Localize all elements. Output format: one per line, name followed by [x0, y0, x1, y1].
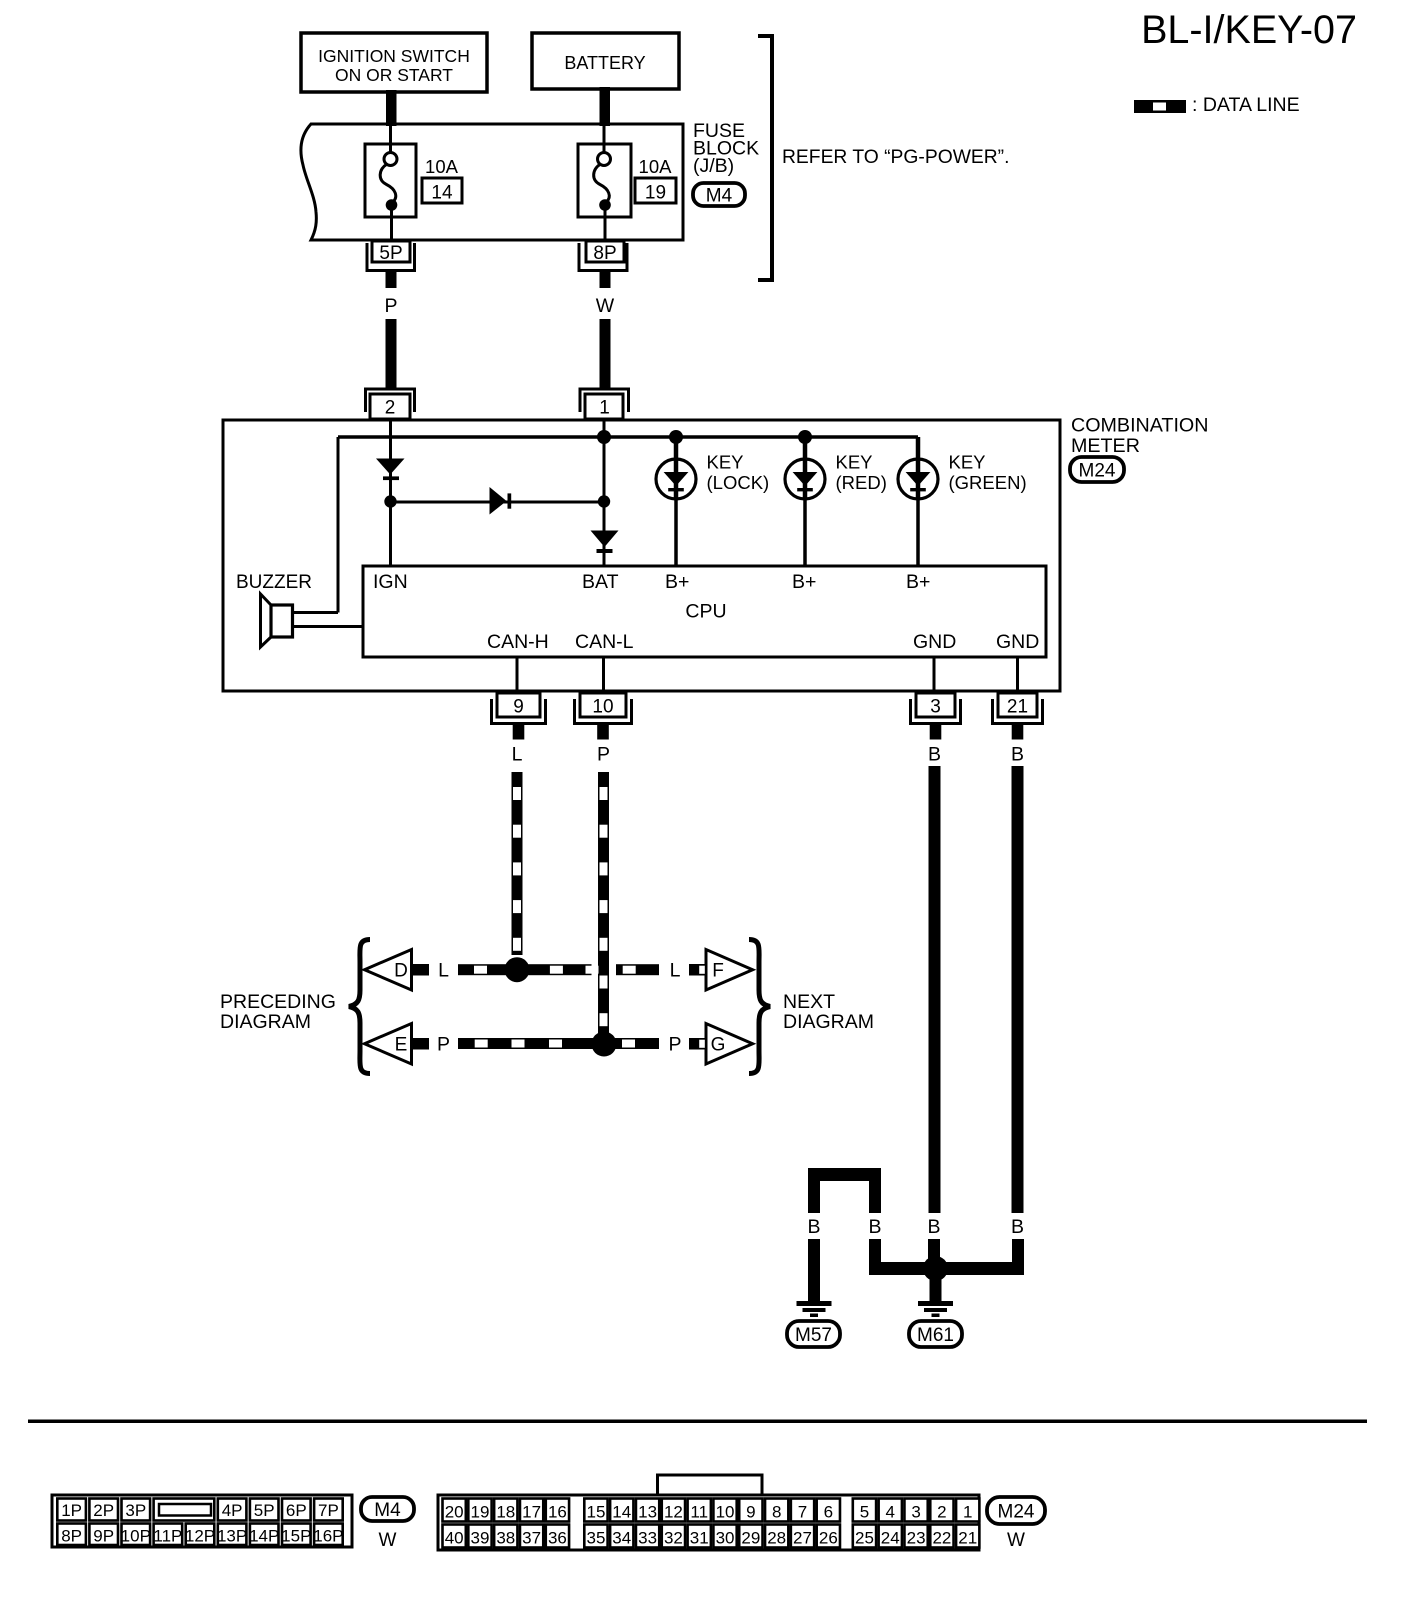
M4 pin 12P: [186, 1524, 215, 1546]
svg-text:15: 15: [586, 1503, 605, 1522]
svg-text:14: 14: [431, 183, 453, 204]
svg-text:B+: B+: [792, 571, 816, 593]
left brace: [349, 940, 370, 1074]
M24 pin 14: [610, 1499, 633, 1522]
wire CAN-H to connector 9: [516, 657, 519, 691]
M4 pin 2P: [89, 1499, 118, 1521]
svg-text:W: W: [1007, 1530, 1025, 1551]
M24 pin 36: [546, 1525, 569, 1548]
connector 2: [366, 389, 415, 412]
junction BAT top bus: [597, 430, 611, 444]
svg-text:6: 6: [824, 1503, 833, 1522]
svg-text:(RED): (RED): [836, 472, 887, 493]
svg-text:10A: 10A: [425, 156, 459, 177]
CPU box: [363, 566, 1046, 657]
M24 pin 5: [853, 1499, 876, 1522]
M24 pin 16: [546, 1499, 569, 1522]
svg-text:34: 34: [612, 1529, 631, 1548]
arrow G next: [706, 1024, 753, 1065]
svg-text:16P: 16P: [313, 1526, 343, 1545]
svg-text:28: 28: [767, 1529, 786, 1548]
junction key lock feed: [669, 430, 683, 444]
svg-text:REFER TO “PG-POWER”.: REFER TO “PG-POWER”.: [782, 147, 1009, 168]
M24 pin 18: [494, 1499, 517, 1522]
svg-text:9P: 9P: [93, 1526, 114, 1545]
svg-text:P: P: [597, 744, 610, 766]
M24 pin 26: [817, 1525, 840, 1548]
svg-text:P: P: [437, 1034, 450, 1056]
svg-text:4: 4: [886, 1503, 895, 1522]
svg-text:35: 35: [586, 1529, 605, 1548]
M24 pin 12: [662, 1499, 685, 1522]
svg-text:M4: M4: [374, 1500, 401, 1521]
M4 pin 16P: [314, 1524, 343, 1546]
data line P horizontal: [458, 1038, 659, 1049]
svg-text:3: 3: [911, 1503, 920, 1522]
connector 3: [911, 699, 961, 724]
svg-text:M61: M61: [917, 1325, 954, 1346]
M4 pin 6P: [282, 1499, 311, 1521]
M24 pin 8: [765, 1499, 788, 1522]
junction BAT link: [598, 495, 610, 507]
svg-text:12: 12: [664, 1503, 683, 1522]
svg-text:30: 30: [716, 1529, 735, 1548]
data line legend symbol: [1134, 100, 1186, 113]
ground loop upside-down U: [808, 1168, 881, 1181]
svg-text:5: 5: [860, 1503, 869, 1522]
arrow D preceding: [365, 950, 412, 991]
diode D1 on IGN line: [376, 459, 405, 475]
svg-text:16: 16: [548, 1503, 567, 1522]
svg-text:23: 23: [907, 1529, 926, 1548]
wire GND to connector 3: [933, 657, 936, 691]
svg-text:IGN: IGN: [373, 571, 408, 593]
connector 21: [993, 699, 1043, 724]
svg-text:B: B: [807, 1216, 820, 1238]
svg-text:B+: B+: [906, 571, 930, 593]
svg-text:P: P: [384, 295, 397, 317]
svg-text:B: B: [1011, 744, 1024, 766]
svg-text:32: 32: [664, 1529, 683, 1548]
svg-text:B: B: [927, 1216, 940, 1238]
svg-text:8P: 8P: [593, 243, 616, 264]
svg-text:38: 38: [496, 1529, 515, 1548]
svg-text:19: 19: [645, 183, 666, 204]
svg-text:9: 9: [746, 1503, 755, 1522]
svg-text:40: 40: [445, 1529, 464, 1548]
svg-text:7P: 7P: [318, 1501, 339, 1520]
svg-text:KEY: KEY: [949, 452, 986, 473]
wire buzzer to top bus: [292, 611, 338, 614]
M4 pin 10P: [122, 1524, 151, 1546]
M4 keyway slot cell: [154, 1499, 215, 1521]
svg-text:METER: METER: [1071, 435, 1140, 457]
svg-text:13P: 13P: [217, 1526, 247, 1545]
svg-text:8P: 8P: [61, 1526, 82, 1545]
svg-text:5P: 5P: [254, 1501, 275, 1520]
svg-text:12P: 12P: [185, 1526, 215, 1545]
M4 pin 15P: [282, 1524, 311, 1546]
svg-text:CPU: CPU: [685, 601, 726, 623]
svg-text:L: L: [438, 960, 449, 982]
connector oval M4 bottom: [361, 1497, 414, 1521]
svg-text:GND: GND: [913, 631, 956, 653]
data line L horizontal: [458, 964, 592, 975]
wire IGN-BAT link: [391, 501, 604, 504]
svg-text:M57: M57: [795, 1325, 832, 1346]
svg-text:KEY: KEY: [707, 452, 744, 473]
wire B from connector 3 lower: [928, 1239, 940, 1263]
svg-text:15P: 15P: [281, 1526, 311, 1545]
svg-text:14P: 14P: [249, 1526, 279, 1545]
wire stub below 8P: [600, 272, 611, 288]
M4 pin 14P: [250, 1524, 279, 1546]
M4 pin 5P: [250, 1499, 279, 1521]
svg-text:(J/B): (J/B): [693, 155, 734, 177]
M24 pin 21: [956, 1525, 979, 1548]
arrow F next: [706, 950, 753, 991]
connector 5P: [367, 243, 415, 271]
ground oval M57: [787, 1321, 840, 1347]
connector 8P: [579, 243, 627, 271]
M24 pin 19: [468, 1499, 491, 1522]
M24 pin 17: [520, 1499, 543, 1522]
M24 pin 9: [739, 1499, 762, 1522]
M24 pin 22: [930, 1525, 953, 1548]
svg-text:IGNITION SWITCH: IGNITION SWITCH: [318, 46, 470, 66]
svg-text:D: D: [394, 961, 408, 982]
svg-text:W: W: [379, 1530, 397, 1551]
junction IGN link: [384, 495, 396, 507]
svg-text:3P: 3P: [125, 1501, 146, 1520]
svg-text:2: 2: [385, 398, 396, 419]
svg-text:F: F: [712, 961, 724, 982]
svg-text:M24: M24: [1079, 460, 1116, 481]
svg-text:7: 7: [798, 1503, 807, 1522]
svg-text:20: 20: [445, 1503, 464, 1522]
svg-text:CAN-L: CAN-L: [575, 631, 634, 653]
ground oval M61: [909, 1321, 962, 1347]
svg-text:24: 24: [881, 1529, 900, 1548]
wire junction to ground M61: [930, 1275, 942, 1301]
M4 pin 11P: [154, 1524, 183, 1546]
svg-text:2: 2: [937, 1503, 946, 1522]
svg-text:G: G: [711, 1035, 726, 1056]
combination meter box: [223, 420, 1060, 691]
svg-text:GND: GND: [996, 631, 1039, 653]
svg-text:COMBINATION: COMBINATION: [1071, 414, 1208, 436]
svg-text:19: 19: [471, 1503, 490, 1522]
data line L vertical: [512, 772, 523, 955]
svg-text:36: 36: [548, 1529, 567, 1548]
LED KEY LOCK: [674, 437, 679, 458]
svg-text:31: 31: [690, 1529, 709, 1548]
M24 pin 20: [443, 1499, 466, 1522]
M24 pin 38: [494, 1525, 517, 1548]
junction key red feed: [798, 430, 812, 444]
connector 9: [492, 699, 546, 724]
svg-text:B: B: [868, 1216, 881, 1238]
svg-text:B+: B+: [665, 571, 689, 593]
wire stub below 21: [1012, 725, 1024, 740]
svg-text:21: 21: [1007, 697, 1028, 718]
svg-text:26: 26: [819, 1529, 838, 1548]
M24 pin 31: [688, 1525, 711, 1548]
connector 10: [575, 699, 632, 724]
M24 pin 28: [765, 1525, 788, 1548]
svg-text:21: 21: [958, 1529, 977, 1548]
ground M61: [918, 1301, 953, 1306]
wire BAT from connector 1 to CPU: [603, 419, 606, 566]
svg-text:33: 33: [638, 1529, 657, 1548]
svg-text:PRECEDING: PRECEDING: [220, 991, 336, 1013]
connector oval M24: [1070, 457, 1124, 482]
svg-text:BAT: BAT: [582, 571, 619, 593]
svg-text:37: 37: [522, 1529, 541, 1548]
arrow E preceding: [365, 1024, 412, 1065]
wire stub below 5P: [386, 272, 397, 288]
svg-text:ON OR START: ON OR START: [335, 65, 453, 85]
svg-text:9: 9: [513, 697, 524, 718]
M4 pin 8P: [57, 1524, 86, 1546]
svg-text:39: 39: [471, 1529, 490, 1548]
junction ground bus: [923, 1256, 948, 1281]
svg-text:10: 10: [592, 697, 613, 718]
svg-text:4P: 4P: [222, 1501, 243, 1520]
svg-text:B: B: [928, 744, 941, 766]
M24 pin 27: [791, 1525, 814, 1548]
svg-text:18: 18: [496, 1503, 515, 1522]
wire P to combination meter: [386, 319, 397, 389]
junction data line P: [592, 1032, 617, 1057]
svg-text:10: 10: [716, 1503, 735, 1522]
M24 pin 7: [791, 1499, 814, 1522]
M24 pin 1: [956, 1499, 979, 1522]
wire stub below 10: [597, 725, 609, 740]
svg-text:1: 1: [599, 398, 610, 419]
separator line: [28, 1420, 1367, 1424]
svg-text:BL-I/KEY-07: BL-I/KEY-07: [1141, 8, 1357, 52]
svg-text:1: 1: [963, 1503, 972, 1522]
connector oval M24 bottom: [987, 1497, 1045, 1524]
wire B from connector 21 lower: [1012, 1239, 1024, 1275]
M4 pin 3P: [122, 1499, 151, 1521]
svg-text:1P: 1P: [61, 1501, 82, 1520]
wire IGN from connector 2 to CPU: [389, 419, 392, 566]
M24 pin 11: [688, 1499, 711, 1522]
svg-text:22: 22: [932, 1529, 951, 1548]
ground bus bar: [869, 1262, 1024, 1275]
svg-text:NEXT: NEXT: [783, 991, 835, 1013]
svg-text:BUZZER: BUZZER: [236, 572, 312, 593]
svg-text:29: 29: [741, 1529, 760, 1548]
svg-text:KEY: KEY: [836, 452, 873, 473]
fuse F14 10A: [365, 144, 416, 217]
svg-text:(LOCK): (LOCK): [707, 472, 770, 493]
data line P vertical: [598, 772, 609, 1038]
M4 pin 4P: [218, 1499, 247, 1521]
svg-text:11P: 11P: [153, 1526, 182, 1545]
M4 pin 13P: [218, 1524, 247, 1546]
svg-text:CAN-H: CAN-H: [487, 631, 549, 653]
bracket for fuse block: [758, 36, 772, 280]
wire buzzer riser: [337, 437, 340, 613]
svg-text:3: 3: [930, 697, 941, 718]
svg-text:DIAGRAM: DIAGRAM: [220, 1011, 311, 1033]
svg-text:W: W: [596, 295, 615, 317]
svg-text:8: 8: [772, 1503, 781, 1522]
svg-text:2P: 2P: [93, 1501, 114, 1520]
diode D3 on BAT line: [591, 531, 619, 548]
connector pinout table M4: [52, 1495, 352, 1547]
connector 1: [580, 389, 629, 412]
wire B to junction: [869, 1239, 881, 1263]
M24 pin 24: [879, 1525, 902, 1548]
svg-text:B: B: [1011, 1216, 1024, 1238]
fuse number 19 box: [635, 178, 676, 203]
M24 pin 35: [584, 1525, 607, 1548]
ground M57: [797, 1301, 832, 1306]
svg-text:L: L: [512, 744, 523, 766]
M24 pin 40: [443, 1525, 466, 1548]
svg-text:17: 17: [522, 1503, 541, 1522]
M4 pin 9P: [89, 1524, 118, 1546]
M24 pin 15: [584, 1499, 607, 1522]
M24 pin 29: [739, 1525, 762, 1548]
svg-text:10A: 10A: [639, 156, 673, 177]
M24 pin 32: [662, 1525, 685, 1548]
M24 pin 39: [468, 1525, 491, 1548]
svg-text:25: 25: [855, 1529, 874, 1548]
fuse number 14 box: [422, 178, 462, 203]
M24 pin 6: [817, 1499, 840, 1522]
M24 pin 10: [713, 1499, 736, 1522]
M24 pin 23: [904, 1525, 927, 1548]
fuse block (J/B) box: [301, 124, 683, 240]
svg-text:11: 11: [690, 1503, 708, 1522]
svg-text:5P: 5P: [379, 243, 402, 264]
wire buzzer to CPU: [292, 625, 363, 628]
wire B from connector 3: [929, 766, 941, 1213]
M24 key bump: [658, 1475, 763, 1498]
wire battery to fuse block: [600, 87, 611, 126]
junction data line L: [505, 957, 530, 982]
M24 pin 30: [713, 1525, 736, 1548]
M24 pin 37: [520, 1525, 543, 1548]
right brace: [749, 940, 770, 1074]
wire ignition switch to fuse block: [386, 90, 397, 126]
diode D2 on IGN-BAT link: [490, 487, 507, 515]
wire B to ground M57: [808, 1239, 820, 1301]
M24 pin 2: [930, 1499, 953, 1522]
svg-text:14: 14: [612, 1503, 631, 1522]
M4 pin 7P: [314, 1499, 343, 1521]
connector oval M4: [693, 183, 745, 206]
svg-text:: DATA LINE: : DATA LINE: [1192, 94, 1300, 116]
M24 pin 13: [636, 1499, 659, 1522]
wire stub below 9: [513, 725, 525, 740]
M24 pin 25: [853, 1525, 876, 1548]
wire CAN-L to connector 10: [602, 657, 605, 691]
svg-text:M4: M4: [706, 185, 733, 206]
wire stub below 3: [930, 725, 942, 740]
wire W to combination meter: [600, 319, 611, 389]
wire GND to connector 21: [1016, 657, 1019, 691]
M24 pin 3: [904, 1499, 927, 1522]
wire top bus inside meter: [338, 435, 918, 439]
M4 pin 1P: [57, 1499, 86, 1521]
battery box: [532, 33, 679, 89]
svg-text:E: E: [395, 1035, 408, 1056]
fuse F19 10A: [578, 144, 631, 217]
svg-text:P: P: [668, 1034, 681, 1056]
svg-text:M24: M24: [998, 1501, 1035, 1522]
svg-text:L: L: [670, 960, 681, 982]
M24 pin 34: [610, 1525, 633, 1548]
svg-text:10P: 10P: [121, 1526, 151, 1545]
M24 pin 33: [636, 1525, 659, 1548]
svg-text:DIAGRAM: DIAGRAM: [783, 1011, 874, 1033]
svg-text:(GREEN): (GREEN): [949, 472, 1027, 493]
svg-text:13: 13: [638, 1503, 657, 1522]
LED KEY RED: [803, 437, 808, 458]
LED KEY GREEN: [916, 437, 921, 458]
M24 pin 4: [879, 1499, 902, 1522]
svg-text:6P: 6P: [286, 1501, 307, 1520]
svg-text:BATTERY: BATTERY: [564, 53, 645, 73]
svg-text:27: 27: [793, 1529, 812, 1548]
ignition switch box: [301, 33, 487, 92]
wire B from connector 21: [1012, 766, 1024, 1213]
